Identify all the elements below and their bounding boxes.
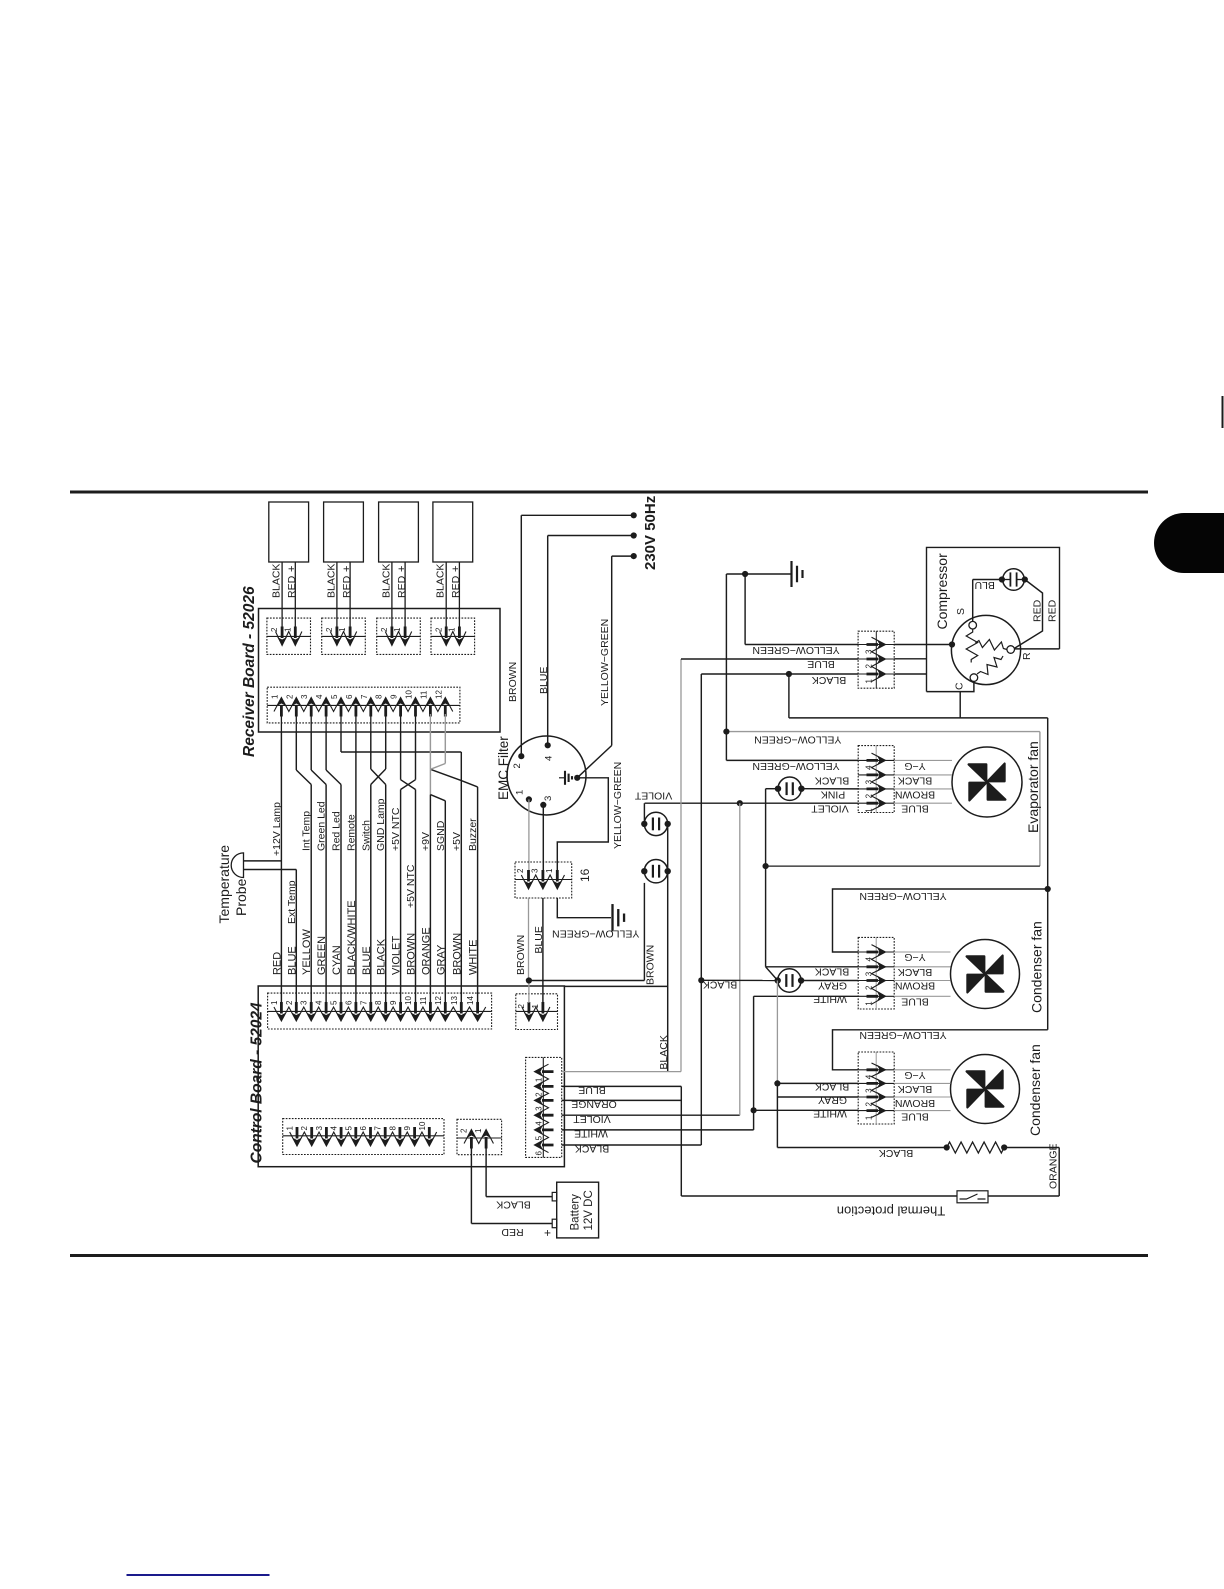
inline connector brown (644, 860, 667, 883)
wire fan2 leads (894, 1069, 950, 1071)
svg-text:11: 11 (419, 996, 428, 1005)
12-pin pin4 stub (325, 714, 327, 732)
wire 12p5 jog to +5V col (340, 732, 342, 753)
heater dot right (1001, 1144, 1007, 1150)
receiver 2-pin connector 1 (267, 618, 311, 654)
svg-text:Thermal protection: Thermal protection (837, 1203, 945, 1218)
evaporator fan blades (969, 764, 1006, 801)
svg-text:BLUE: BLUE (901, 996, 928, 1008)
svg-text:BLACK: BLACK (703, 978, 737, 990)
svg-text:Battery: Battery (570, 1194, 582, 1231)
condenser fan2 blades (967, 1071, 1004, 1108)
wire yg to earth (557, 898, 611, 918)
svg-text:BLUE: BLUE (901, 803, 928, 815)
svg-text:1: 1 (393, 627, 402, 632)
svg-text:BLACK: BLACK (575, 1143, 609, 1155)
LED box 4 wires (445, 562, 447, 629)
mains dot L (631, 512, 637, 518)
svg-text:10: 10 (405, 690, 414, 699)
wire col2 ExtTemp (295, 870, 297, 1004)
wire violet horizontal (645, 802, 859, 804)
wire 6p3 orange (562, 1099, 682, 1101)
svg-text:RED: RED (341, 575, 353, 598)
svg-text:2: 2 (380, 627, 389, 632)
svg-text:YELLOW−GREEN: YELLOW−GREEN (752, 644, 839, 656)
svg-text:13: 13 (450, 996, 459, 1005)
motor terminal R (1007, 646, 1015, 654)
wire cross 7-8 (370, 732, 372, 770)
svg-text:2: 2 (516, 868, 525, 873)
condenser fan2 circle (951, 1055, 1020, 1124)
svg-text:14: 14 (466, 996, 475, 1005)
svg-text:BROWN: BROWN (515, 935, 527, 975)
motor winding R (975, 640, 1007, 651)
inline connector pink (778, 777, 801, 800)
wire cross 9-10 (400, 732, 402, 780)
wire yg emc to conn16 (557, 778, 608, 871)
svg-text:BLUE: BLUE (901, 1111, 928, 1123)
wire pink riser (765, 789, 767, 866)
svg-text:+5V NTC: +5V NTC (405, 864, 417, 908)
svg-text:GREEN: GREEN (316, 936, 328, 975)
wire fan1 leads (894, 951, 950, 953)
wire fan1 p3 (766, 966, 859, 968)
12-pin pin8 stub (385, 714, 387, 732)
condenser fan1 connector (858, 937, 894, 1009)
svg-text:BLACK: BLACK (812, 674, 846, 686)
svg-text:BLACK: BLACK (325, 564, 337, 598)
battery box (557, 1182, 599, 1238)
svg-text:2: 2 (285, 1000, 294, 1005)
12-pin pin3 stub (310, 714, 312, 732)
svg-text:VIOLET: VIOLET (573, 1113, 611, 1125)
thermal switch box (957, 1191, 988, 1203)
svg-text:BLACK: BLACK (815, 1081, 849, 1093)
svg-text:BLACK: BLACK (435, 564, 447, 598)
svg-text:6: 6 (344, 1000, 353, 1005)
wire comp pin2 internal (894, 658, 926, 660)
svg-text:4: 4 (315, 1000, 324, 1005)
EMC pin3 (540, 802, 546, 808)
svg-text:Switch: Switch (360, 820, 372, 851)
motor terminal C (970, 674, 978, 682)
control 6-pin connector (526, 1057, 562, 1157)
svg-text:BLACK: BLACK (898, 774, 932, 786)
motor winding S (966, 629, 978, 663)
wire fan1 p2 (801, 980, 858, 982)
LED box 3 wires (391, 562, 393, 629)
control 14-pin connector (268, 993, 492, 1029)
svg-text:3: 3 (300, 694, 309, 699)
svg-text:7: 7 (360, 694, 369, 699)
svg-text:EMC Filter: EMC Filter (496, 736, 511, 800)
svg-text:10: 10 (418, 1121, 427, 1130)
wire 6p1 gray (562, 1071, 681, 1073)
svg-text:4: 4 (330, 1126, 339, 1131)
wire brown mains (521, 514, 633, 516)
svg-text:+9V: +9V (420, 832, 432, 851)
svg-text:Remote: Remote (345, 814, 357, 851)
svg-text:VIOLET: VIOLET (811, 803, 849, 815)
violet junction dot (737, 800, 743, 806)
svg-text:Ext Temp: Ext Temp (286, 880, 298, 924)
EMC pin1 (526, 796, 532, 802)
wire 6p2 blue-thermal (562, 1085, 682, 1087)
wire 12p11 to SGND col (429, 732, 431, 770)
svg-text:2: 2 (512, 763, 523, 768)
svg-text:BLACK: BLACK (879, 1147, 913, 1159)
svg-text:5: 5 (330, 694, 339, 699)
svg-text:230V 50Hz: 230V 50Hz (642, 496, 659, 570)
svg-text:2: 2 (434, 627, 443, 632)
receiver 12-pin connector (267, 687, 460, 723)
svg-text:2: 2 (300, 1126, 309, 1131)
wire yg fan1 (833, 889, 1048, 952)
svg-text:4: 4 (315, 694, 324, 699)
svg-text:C: C (954, 682, 966, 690)
earth ground comp (790, 561, 792, 587)
svg-text:8: 8 (374, 1000, 383, 1005)
wire white to fan2 (754, 1109, 859, 1111)
probe wire BLUE (244, 869, 297, 871)
inline connector fan1 (778, 969, 801, 992)
svg-text:BLACK: BLACK (380, 564, 392, 598)
motor winding C (977, 656, 1003, 675)
svg-text:1: 1 (283, 627, 292, 632)
svg-text:1: 1 (545, 868, 554, 873)
wire heater to switch (1004, 1147, 1059, 1149)
condenser fan2 connector (858, 1052, 894, 1124)
svg-text:PINK: PINK (821, 788, 846, 800)
wire pink left (766, 788, 778, 790)
svg-text:1: 1 (448, 627, 457, 632)
right crop mark (1222, 396, 1224, 428)
svg-text:Evaporator fan: Evaporator fan (1025, 741, 1041, 833)
svg-text:BLUE: BLUE (578, 1084, 605, 1096)
white junction dot (751, 1107, 757, 1113)
wire black to fan1 circle (701, 979, 777, 981)
svg-text:YELLOW−GREEN: YELLOW−GREEN (859, 1029, 946, 1041)
svg-text:WHITE: WHITE (574, 1128, 608, 1140)
evaporator fan connector (858, 746, 894, 813)
12-pin pin5 stub (340, 714, 342, 732)
control 2-pin connector (516, 994, 558, 1030)
evaporator fan circle (952, 747, 1022, 817)
wire emc1 to conn16 (528, 799, 530, 871)
svg-text:6: 6 (535, 1151, 544, 1156)
12-pin pin11 stub (429, 714, 431, 732)
EMC filter circle (507, 736, 586, 815)
comp black branch dot (786, 671, 792, 677)
svg-text:3: 3 (315, 1126, 324, 1131)
svg-text:RED: RED (1047, 599, 1059, 622)
start capacitor bars (1009, 572, 1011, 586)
battery wire BLACK (486, 1196, 552, 1198)
svg-text:10: 10 (404, 996, 413, 1005)
black junction dot (698, 977, 704, 983)
svg-text:16: 16 (578, 868, 592, 882)
svg-text:1: 1 (474, 1128, 483, 1133)
svg-text:12V DC: 12V DC (583, 1190, 595, 1230)
svg-text:9: 9 (403, 1126, 412, 1131)
svg-text:RED: RED (286, 575, 298, 598)
svg-text:YELLOW−GREEN: YELLOW−GREEN (552, 928, 639, 940)
svg-text:R: R (1021, 652, 1033, 660)
connector 16 (515, 862, 572, 898)
svg-text:BLACK: BLACK (496, 1198, 530, 1210)
wire thermal line (681, 1195, 957, 1197)
earth ground bottom (611, 904, 613, 931)
control battery 2-pin connector (457, 1119, 502, 1154)
12-pin pin9 stub (400, 714, 402, 732)
wire 6p6 black (562, 1144, 702, 1146)
temperature probe symbol (231, 853, 243, 878)
wire blue mains (548, 535, 634, 537)
svg-text:9: 9 (389, 1000, 398, 1005)
svg-text:Condenser fan: Condenser fan (1027, 1044, 1043, 1136)
svg-text:2: 2 (460, 1128, 469, 1133)
svg-text:BLACK: BLACK (898, 1083, 932, 1095)
svg-text:3: 3 (530, 868, 539, 873)
svg-text:1: 1 (286, 1126, 295, 1131)
wire comp pin1 internal (894, 673, 926, 675)
svg-text:VIOLET: VIOLET (634, 790, 672, 802)
svg-text:+: + (286, 566, 298, 572)
svg-text:BLUE: BLUE (361, 946, 373, 975)
svg-text:Y−G: Y−G (904, 760, 925, 772)
inline connector violet (644, 812, 667, 835)
svg-text:BLU: BLU (974, 579, 994, 591)
svg-text:BLUE: BLUE (538, 667, 550, 694)
receiver 2-pin connector 3 (377, 618, 421, 654)
mains dot N (631, 532, 637, 538)
LED box 2 (324, 502, 364, 562)
wire evapbox link (959, 692, 961, 718)
svg-text:+5V NTC: +5V NTC (390, 807, 402, 851)
wire yg mains (612, 555, 634, 557)
wire fan1 p1 (754, 995, 859, 997)
svg-text:2: 2 (517, 1004, 526, 1009)
svg-text:BROWN: BROWN (406, 933, 418, 975)
wire heater left (777, 1147, 946, 1149)
svg-text:BLACK/WHITE: BLACK/WHITE (346, 900, 358, 975)
wire comp yg (745, 644, 858, 646)
wire fan2 p2 (777, 1096, 858, 1098)
svg-text:Receiver Board - 52026: Receiver Board - 52026 (241, 586, 258, 757)
svg-text:4: 4 (544, 756, 555, 761)
receiver 2-pin connector 4 (431, 618, 475, 654)
cap dot left (999, 576, 1005, 582)
12-pin pin12 stub (444, 714, 446, 732)
wire violet chain (667, 824, 669, 871)
svg-text:GRAY: GRAY (818, 1094, 847, 1106)
svg-text:BROWN: BROWN (895, 788, 935, 800)
yg riser dot (1045, 886, 1051, 892)
svg-text:BLUE: BLUE (807, 658, 834, 670)
svg-text:WHITE: WHITE (813, 993, 847, 1005)
footer blue rule (127, 1574, 270, 1576)
svg-text:6: 6 (359, 1126, 368, 1131)
svg-text:BROWN: BROWN (895, 1097, 935, 1109)
compressor outline (927, 547, 1060, 691)
wire blue below16 (542, 898, 544, 1003)
comp yg junction dot (742, 571, 748, 577)
receiver 2-pin connector 2 (322, 618, 366, 654)
motor terminal S (969, 621, 977, 629)
svg-text:RED: RED (450, 575, 462, 598)
svg-text:8: 8 (388, 1126, 397, 1131)
condenser fan1 blades (967, 956, 1004, 993)
EMC pin4 (545, 742, 551, 748)
svg-text:RED: RED (396, 575, 408, 598)
wire brown branch (529, 980, 645, 982)
wire gray riser (776, 981, 778, 1084)
svg-text:Red Led: Red Led (331, 811, 343, 851)
comp shell dot (949, 641, 955, 647)
wire cap to R (1014, 580, 1042, 649)
svg-text:ORANGE: ORANGE (1048, 1143, 1060, 1189)
wire yg drop (725, 574, 727, 760)
svg-text:BROWN: BROWN (645, 945, 657, 985)
wire comp black (701, 673, 858, 675)
svg-text:GRAY: GRAY (818, 980, 847, 992)
wire 6p4 violet (562, 1114, 740, 1116)
control board outline (258, 986, 564, 1167)
svg-text:VIOLET: VIOLET (391, 936, 403, 975)
wire 6p5 white (562, 1129, 754, 1131)
wire comp C path (927, 682, 974, 692)
LED box 1 wires (281, 562, 283, 629)
svg-text:BLACK: BLACK (815, 774, 849, 786)
wire col1 +12V/RED (280, 732, 282, 1004)
svg-text:RED: RED (271, 952, 283, 975)
svg-text:Temperature: Temperature (216, 845, 232, 924)
svg-text:+: + (396, 566, 408, 572)
wire S to cap (972, 580, 974, 622)
svg-text:ORANGE: ORANGE (571, 1098, 617, 1110)
wire black branch down (788, 674, 790, 718)
EMC ground pin (574, 775, 580, 781)
svg-text:+: + (450, 566, 462, 572)
12-pin pin6 stub (355, 714, 357, 732)
svg-text:S: S (955, 608, 967, 615)
svg-text:11: 11 (419, 690, 428, 699)
wire comp pin3 internal (894, 644, 952, 646)
svg-text:+: + (544, 1226, 551, 1240)
control 10-pin connector (283, 1119, 444, 1155)
svg-text:CYAN: CYAN (331, 945, 343, 975)
svg-text:YELLOW−GREEN: YELLOW−GREEN (754, 734, 841, 746)
wire R out (1015, 648, 1060, 650)
battery terminal tabs (552, 1192, 557, 1201)
svg-text:2: 2 (325, 627, 334, 632)
evap box bottom (766, 865, 1040, 867)
wire fan2 p3 (777, 1082, 858, 1084)
svg-text:GND Lamp: GND Lamp (375, 798, 387, 851)
svg-text:Int Temp: Int Temp (301, 811, 313, 851)
svg-text:3: 3 (300, 1000, 309, 1005)
thermal switch symbol (960, 1194, 986, 1199)
svg-text:Y−G: Y−G (904, 1069, 925, 1081)
svg-text:3: 3 (543, 796, 554, 801)
wire evap fan leads (894, 759, 952, 761)
compressor 3-pin connector (858, 631, 894, 688)
yg drop dot (723, 729, 729, 735)
evap box bottom dot (763, 863, 769, 869)
svg-text:1: 1 (270, 1000, 279, 1005)
wire 12p12 gray shift (444, 732, 446, 764)
compressor motor circle (951, 615, 1020, 684)
svg-text:YELLOW−GREEN: YELLOW−GREEN (612, 762, 624, 849)
right edge black tab (1154, 513, 1224, 573)
svg-text:1: 1 (515, 790, 526, 795)
evap box right (1039, 732, 1041, 867)
mains dot PE (631, 553, 637, 559)
svg-text:1: 1 (535, 1077, 544, 1082)
svg-text:9: 9 (390, 694, 399, 699)
svg-text:BLACK: BLACK (271, 564, 283, 598)
svg-text:BLUE: BLUE (286, 946, 298, 975)
svg-text:SGND: SGND (435, 820, 447, 851)
svg-text:BLACK: BLACK (658, 1035, 670, 1069)
svg-text:GRAY: GRAY (435, 944, 447, 975)
cap dot right (1022, 576, 1028, 582)
svg-text:+12V Lamp: +12V Lamp (271, 802, 283, 856)
svg-text:BLACK: BLACK (815, 966, 849, 978)
svg-text:Green Led: Green Led (316, 801, 328, 851)
wire pink right (801, 788, 858, 790)
brown junction dot (526, 977, 532, 983)
svg-text:Probe: Probe (233, 878, 249, 916)
svg-text:Compressor: Compressor (934, 553, 950, 630)
wire board edge riser (667, 871, 669, 1071)
svg-text:1: 1 (531, 1004, 540, 1009)
evap box top (726, 731, 1040, 733)
svg-text:BLACK: BLACK (376, 938, 388, 975)
svg-text:+: + (341, 566, 353, 572)
LED box 3 (379, 502, 419, 562)
thermal heater zigzag (947, 1142, 1005, 1153)
svg-text:BLUE: BLUE (533, 926, 545, 953)
svg-text:YELLOW: YELLOW (301, 929, 313, 975)
svg-text:5: 5 (344, 1126, 353, 1131)
wire 12p3 shift (310, 732, 312, 771)
LED box 2 wires (336, 562, 338, 629)
12-pin pin2 stub (295, 714, 297, 732)
svg-text:12: 12 (434, 996, 443, 1005)
svg-text:Condenser fan: Condenser fan (1029, 921, 1045, 1013)
wire brown below16 (528, 898, 530, 981)
svg-text:6: 6 (345, 694, 354, 699)
svg-text:RED: RED (1032, 599, 1044, 622)
svg-text:BLACK: BLACK (898, 966, 932, 978)
svg-text:Y−G: Y−G (904, 951, 925, 963)
LED box 4 (433, 502, 473, 562)
svg-text:BROWN: BROWN (507, 662, 519, 702)
wire col6 Remote/BLACK-WHITE (355, 732, 357, 1004)
svg-text:8: 8 (375, 694, 384, 699)
heater dot left (944, 1144, 950, 1150)
svg-text:YELLOW−GREEN: YELLOW−GREEN (859, 890, 946, 902)
wire violet corner (643, 803, 645, 824)
svg-text:Buzzer: Buzzer (467, 818, 479, 851)
svg-text:BROWN: BROWN (451, 933, 463, 975)
wire 12p2 shift (295, 732, 297, 771)
wire yg riser (1047, 718, 1049, 1030)
wire yg fan2 (833, 1030, 1048, 1070)
svg-text:7: 7 (374, 1126, 383, 1131)
bottom rule (70, 1254, 1148, 1257)
